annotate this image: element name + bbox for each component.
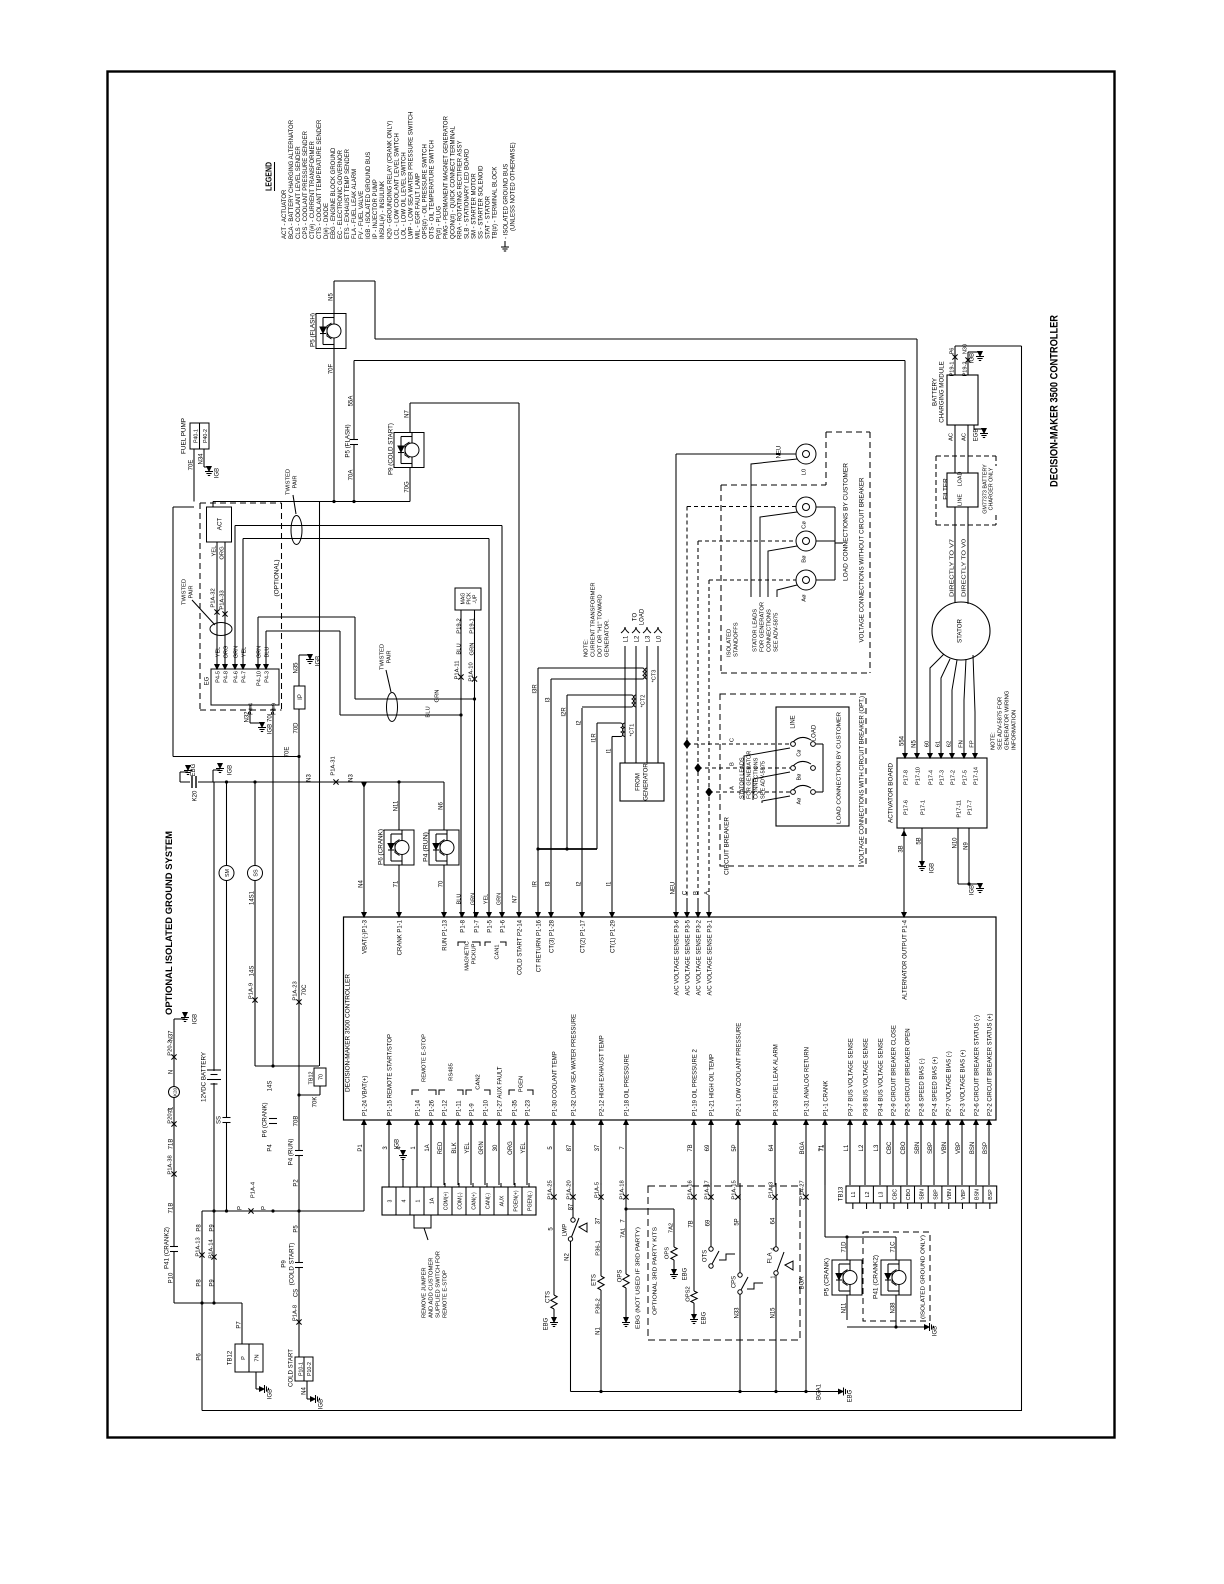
svg-text:ISOLATED: ISOLATED xyxy=(726,629,732,657)
svg-text:5B: 5B xyxy=(916,837,922,844)
svg-text:P3-8 BUS VOLTAGE SENSE: P3-8 BUS VOLTAGE SENSE xyxy=(863,1038,869,1116)
svg-text:P17-4: P17-4 xyxy=(928,770,934,785)
current transformer CT1 xyxy=(623,723,625,737)
svg-text:N15: N15 xyxy=(770,1307,776,1319)
wire I1 xyxy=(612,736,621,738)
svg-text:Cø: Cø xyxy=(801,521,807,529)
svg-text:CURRENT TRANSFORMER: CURRENT TRANSFORMER xyxy=(590,582,596,657)
svg-text:FV - FUEL VALVE: FV - FUEL VALVE xyxy=(359,191,365,239)
cold start box xyxy=(295,1357,313,1381)
svg-text:B: B xyxy=(729,762,735,766)
svg-text:70G: 70G xyxy=(404,481,410,493)
svg-text:37: 37 xyxy=(595,1217,601,1224)
svg-text:CBO: CBO xyxy=(906,1189,912,1200)
circuit breaker box xyxy=(776,707,849,826)
svg-text:N5: N5 xyxy=(911,740,917,748)
svg-text:SS - STARTER SOLENOID: SS - STARTER SOLENOID xyxy=(479,165,485,239)
svg-text:YEL: YEL xyxy=(521,1142,527,1154)
breaker pole A xyxy=(791,790,796,795)
svg-text:FILTER: FILTER xyxy=(942,478,949,500)
svg-text:(UNLESS NOTED OTHERWISE): (UNLESS NOTED OTHERWISE) xyxy=(510,142,516,231)
ground IGB (cold start) xyxy=(311,1397,316,1401)
wire ORG from ACT xyxy=(224,542,226,660)
splice P1A-27 xyxy=(803,1194,808,1199)
svg-text:(COLD START): (COLD START) xyxy=(288,1243,295,1286)
svg-text:3B: 3B xyxy=(898,845,904,852)
svg-text:SUPPLIED SWITCH FOR: SUPPLIED SWITCH FOR xyxy=(435,1251,441,1318)
wire P6 down to bottom rail xyxy=(201,1303,203,1411)
svg-text:P19-1: P19-1 xyxy=(469,618,475,633)
svg-text:CAN1: CAN1 xyxy=(494,945,500,960)
svg-text:CT(3) P1-28: CT(3) P1-28 xyxy=(549,919,555,953)
stator lead C# xyxy=(760,512,797,597)
wire P8 xyxy=(201,1211,203,1303)
svg-text:(ISOLATED GROUND ONLY): (ISOLATED GROUND ONLY) xyxy=(920,1235,926,1319)
svg-text:64: 64 xyxy=(770,1217,776,1224)
svg-text:BLU: BLU xyxy=(456,894,462,905)
svg-text:PAIR: PAIR xyxy=(188,585,194,598)
svg-text:P5 (FLASH): P5 (FLASH) xyxy=(344,424,351,457)
wire I2 xyxy=(582,706,632,708)
svg-text:STANDOFFS: STANDOFFS xyxy=(733,622,739,657)
wire 70C down to controller area xyxy=(298,757,300,1358)
svg-text:EGB: EGB xyxy=(973,429,979,442)
svg-text:IGB: IGB xyxy=(315,656,321,666)
svg-text:P1A-20: P1A-20 xyxy=(566,1180,572,1199)
wire 87 / LWP switch xyxy=(572,1183,574,1218)
svg-text:SBN: SBN xyxy=(915,1142,921,1154)
svg-text:RUN P1-13: RUN P1-13 xyxy=(442,919,448,950)
stator lead L0 xyxy=(751,459,797,597)
svg-text:N6: N6 xyxy=(438,802,444,810)
lamp P9 (COLD START) xyxy=(394,433,424,468)
ground EBG (OPS) xyxy=(624,1318,628,1323)
svg-text:P1-33 FUEL LEAK ALARM: P1-33 FUEL LEAK ALARM xyxy=(773,1044,779,1116)
svg-text:P5 (CRANK): P5 (CRANK) xyxy=(823,1258,830,1296)
svg-text:CAN(+): CAN(+) xyxy=(471,1192,477,1210)
svg-text:14S: 14S xyxy=(267,1081,273,1092)
svg-text:P3-4 BUS VOLTAGE SENSE: P3-4 BUS VOLTAGE SENSE xyxy=(878,1038,884,1116)
svg-text:FN: FN xyxy=(958,740,964,748)
svg-text:P1A-8: P1A-8 xyxy=(292,1305,298,1321)
svg-text:5P: 5P xyxy=(732,1144,738,1151)
contact SS on SM wire xyxy=(225,1118,228,1123)
controller box DECISION-MAKER 3500 xyxy=(344,917,997,1120)
svg-text:N37: N37 xyxy=(168,1030,174,1042)
svg-text:I3: I3 xyxy=(545,697,551,703)
wire 70D xyxy=(298,709,300,757)
svg-text:(OPTIONAL): (OPTIONAL) xyxy=(273,560,280,597)
svg-text:71C: 71C xyxy=(890,1241,896,1253)
svg-text:CPS: CPS xyxy=(731,1276,737,1288)
svg-text:7A1: 7A1 xyxy=(620,1228,626,1238)
svg-text:70D: 70D xyxy=(293,722,299,734)
svg-text:STATOR LEADS: STATOR LEADS xyxy=(752,609,758,652)
svg-text:IGB: IGB xyxy=(192,1014,198,1024)
dashed wire B to stator xyxy=(698,540,796,542)
svg-text:P1-10: P1-10 xyxy=(483,1099,489,1116)
svg-text:P1-35: P1-35 xyxy=(512,1099,518,1116)
svg-text:OPS(#) - OIL PRESSURE SWIT: OPS(#) - OIL PRESSURE SWITCH xyxy=(422,144,428,239)
wire NEU from L0 xyxy=(676,453,796,455)
splice P1A-38 xyxy=(171,1171,176,1176)
svg-text:P1A-4: P1A-4 xyxy=(250,1181,256,1198)
svg-text:ACT - ACTUATOR: ACT - ACTUATOR xyxy=(282,189,288,239)
svg-text:I1R: I1R xyxy=(591,733,597,743)
svg-text:*CT1: *CT1 xyxy=(629,724,635,737)
dashed box optional 3rd party kits xyxy=(648,1186,800,1340)
svg-text:P17-5: P17-5 xyxy=(962,770,968,785)
svg-text:LCL - LOW COOLANT LEVEL S: LCL - LOW COOLANT LEVEL SWITCH xyxy=(394,133,400,239)
svg-text:FLA - FUEL LEAK ALARM: FLA - FUEL LEAK ALARM xyxy=(352,169,358,239)
svg-text:L0: L0 xyxy=(656,635,662,642)
svg-text:P10-1: P10-1 xyxy=(298,1362,304,1376)
svg-text:GRN: GRN xyxy=(469,643,475,656)
svg-text:SS: SS xyxy=(253,869,259,877)
svg-text:PGEN: PGEN xyxy=(518,1076,524,1092)
svg-text:P9: P9 xyxy=(280,1260,287,1268)
ground EGG via capacitor K20 xyxy=(179,772,181,782)
svg-text:VBP: VBP xyxy=(956,1142,962,1154)
svg-text:P1A-33: P1A-33 xyxy=(219,590,225,609)
dashed wire B vertical xyxy=(697,541,699,898)
svg-text:VOLTAGE CONNECTIONS WITH CI: VOLTAGE CONNECTIONS WITH CIRCUIT BREAKER… xyxy=(859,696,865,864)
svg-text:LINE: LINE xyxy=(957,494,963,506)
svg-text:IGB: IGB xyxy=(318,1399,324,1409)
svg-text:14S: 14S xyxy=(249,966,255,977)
dashed wires to breaker line side xyxy=(687,743,790,745)
svg-text:P36-2: P36-2 xyxy=(595,1298,601,1313)
svg-text:ACTIVATOR BOARD: ACTIVATOR BOARD xyxy=(887,762,894,823)
svg-text:A: A xyxy=(729,786,735,790)
svg-text:BCA - BATTERY CHARGING ALT: BCA - BATTERY CHARGING ALTERNATOR xyxy=(289,119,295,239)
mag pickup pins xyxy=(460,610,462,715)
ground bus EBG (sensors) xyxy=(571,1391,839,1393)
svg-text:P6 (CRANK): P6 (CRANK) xyxy=(377,829,384,865)
svg-text:P8: P8 xyxy=(196,1279,202,1287)
svg-text:K20 - GROUNDING RELAY (CRA: K20 - GROUNDING RELAY (CRANK ONLY) xyxy=(387,121,393,239)
wire GRN to controller P1-7 xyxy=(474,699,476,917)
wire P4-4 N32 to ground xyxy=(249,705,251,723)
svg-text:71D: 71D xyxy=(841,1241,847,1253)
svg-text:71: 71 xyxy=(393,880,399,887)
stator terminal C# xyxy=(796,497,816,517)
svg-text:L1: L1 xyxy=(851,1192,857,1198)
battery charging module box xyxy=(947,375,978,425)
ground IGB on bus N3 xyxy=(212,770,214,782)
wire N7 from P9 lamp xyxy=(409,403,411,433)
dashed wire A vertical xyxy=(708,580,710,898)
svg-text:TB13: TB13 xyxy=(838,1186,844,1201)
svg-text:P1A-17: P1A-17 xyxy=(704,1180,710,1199)
wire BLU to controller P1-8 xyxy=(460,715,462,917)
wire 3B from activator to controller xyxy=(903,828,905,917)
svg-text:P17-3: P17-3 xyxy=(939,770,945,785)
svg-text:RED: RED xyxy=(438,1141,444,1154)
svg-text:FUEL PUMP: FUEL PUMP xyxy=(180,418,187,454)
svg-text:55A: 55A xyxy=(348,396,354,407)
svg-text:CHARGER ONLY: CHARGER ONLY xyxy=(988,467,994,510)
module AC pins xyxy=(954,425,956,473)
svg-text:N2: N2 xyxy=(564,1253,570,1261)
svg-text:70A: 70A xyxy=(348,470,354,481)
svg-text:L3: L3 xyxy=(879,1192,885,1198)
svg-text:L0: L0 xyxy=(801,469,807,475)
svg-text:69: 69 xyxy=(705,1219,711,1226)
svg-text:P: P xyxy=(237,1206,243,1210)
svg-text:L2: L2 xyxy=(859,1144,865,1151)
svg-text:P2-3 VOLTAGE BIAS (+): P2-3 VOLTAGE BIAS (+) xyxy=(960,1050,966,1116)
svg-text:INSUL(#) - INSULINK: INSUL(#) - INSULINK xyxy=(380,181,386,239)
ground IGB (module) xyxy=(978,352,982,357)
svg-text:SBP: SBP xyxy=(933,1189,939,1200)
svg-text:Bø: Bø xyxy=(801,555,807,563)
svg-text:CS: CS xyxy=(293,1289,299,1297)
svg-text:N9: N9 xyxy=(963,842,969,850)
svg-text:LOAD CONNECTION BY CUSTOMER: LOAD CONNECTION BY CUSTOMER xyxy=(836,712,842,824)
svg-text:P36-1: P36-1 xyxy=(595,1240,601,1255)
svg-text:YEL: YEL xyxy=(465,1142,471,1154)
wire I2 stub xyxy=(581,708,583,917)
svg-text:BLU: BLU xyxy=(456,643,462,654)
svg-text:EBG: EBG xyxy=(682,1267,688,1280)
svg-text:BLU: BLU xyxy=(425,706,431,717)
svg-text:DIRECTLY TO V7: DIRECTLY TO V7 xyxy=(949,539,955,597)
svg-text:7A2: 7A2 xyxy=(668,1223,674,1233)
svg-text:P1-8: P1-8 xyxy=(460,919,466,932)
svg-text:PICKUP: PICKUP xyxy=(471,943,477,964)
wire 70E horizontal xyxy=(172,507,174,757)
filter box xyxy=(947,473,978,507)
wire to TB12 and bottom bus xyxy=(174,1302,242,1304)
ground IGB (TB12) xyxy=(255,1372,257,1389)
svg-text:SLB - STATIONARY LED BOARD: SLB - STATIONARY LED BOARD xyxy=(465,148,471,239)
svg-text:IP - INJECTOR PUMP: IP - INJECTOR PUMP xyxy=(373,179,379,239)
page border frame xyxy=(108,72,1115,1438)
svg-text:OTS - OIL TEMPERATURE SWIT: OTS - OIL TEMPERATURE SWITCH xyxy=(429,140,435,239)
splice P20-2 xyxy=(171,1054,176,1059)
svg-text:P4-8: P4-8 xyxy=(223,671,229,683)
wire GRN magnetic pickup xyxy=(257,617,259,660)
actuator box ACT xyxy=(207,507,232,542)
svg-text:P1A-38: P1A-38 xyxy=(167,1155,173,1174)
svg-text:ETS - EXHAUST TEMP SENDER: ETS - EXHAUST TEMP SENDER xyxy=(345,148,351,239)
wire 70E from fuel pump xyxy=(193,449,195,502)
wire 70G xyxy=(409,468,411,502)
svg-text:P40-2: P40-2 xyxy=(203,429,209,443)
svg-text:64: 64 xyxy=(769,1144,775,1151)
svg-text:P10: P10 xyxy=(168,1272,174,1283)
svg-text:NEU: NEU xyxy=(776,446,782,459)
ground IGB (crank lamps) xyxy=(847,1326,924,1328)
svg-text:P1-11: P1-11 xyxy=(456,1100,462,1116)
svg-text:RS485: RS485 xyxy=(448,1063,454,1081)
svg-text:BGA: BGA xyxy=(799,1277,805,1290)
svg-text:ETS: ETS xyxy=(591,1274,597,1286)
svg-text:P1A-31: P1A-31 xyxy=(330,756,336,775)
svg-text:EBG: EBG xyxy=(191,763,197,776)
svg-text:I1: I1 xyxy=(606,748,612,754)
wire I2R xyxy=(567,694,632,696)
generator feed L3 xyxy=(646,646,648,763)
stator terminal L0 xyxy=(796,444,816,464)
starter motor SM circle xyxy=(226,782,228,1211)
svg-text:EBG: EBG xyxy=(847,1389,853,1402)
svg-text:P17-8: P17-8 xyxy=(903,770,909,785)
svg-text:P1-12: P1-12 xyxy=(442,1099,448,1116)
from generator box xyxy=(620,763,664,801)
svg-text:CBC: CBC xyxy=(887,1141,893,1154)
svg-text:LINE: LINE xyxy=(790,715,796,728)
svg-text:71B: 71B xyxy=(168,1203,174,1214)
load bracket (without breaker) xyxy=(816,506,835,508)
svg-text:IR: IR xyxy=(532,880,538,887)
svg-text:BSP: BSP xyxy=(988,1189,994,1200)
svg-text:VBAT(-)P1-3: VBAT(-)P1-3 xyxy=(362,919,368,954)
svg-text:P1-19 OIL PRESSURE 2: P1-19 OIL PRESSURE 2 xyxy=(692,1049,698,1116)
wire IR stub xyxy=(537,849,539,917)
svg-text:PGEN(-): PGEN(-) xyxy=(527,1191,533,1211)
svg-text:CRANK P1-1: CRANK P1-1 xyxy=(397,919,403,955)
svg-text:P17-2: P17-2 xyxy=(950,770,956,785)
terminal block TB12 tap 70K xyxy=(299,1094,320,1096)
contact P5 (FLASH) xyxy=(353,440,356,445)
svg-text:Aø: Aø xyxy=(796,797,802,805)
contact P9 (COLD START) xyxy=(298,1263,301,1268)
svg-text:P19-2: P19-2 xyxy=(962,362,968,377)
svg-text:P6: P6 xyxy=(949,348,955,355)
svg-text:P1-23: P1-23 xyxy=(525,1099,531,1116)
svg-text:K20: K20 xyxy=(172,1087,177,1096)
wire GRN CAN1 xyxy=(234,526,236,661)
wire 55A vertical xyxy=(353,361,355,502)
svg-text:CBO: CBO xyxy=(901,1141,907,1154)
svg-text:CT(2) P1-17: CT(2) P1-17 xyxy=(580,919,586,953)
dashed box (OPTIONAL) engine governor xyxy=(199,503,201,710)
splice P1A-23 xyxy=(296,999,301,1004)
svg-text:P1A-23: P1A-23 xyxy=(292,981,298,1000)
svg-text:FOR GENERATOR: FOR GENERATOR xyxy=(746,751,752,799)
svg-text:INFORMATION: INFORMATION xyxy=(1011,710,1017,750)
svg-text:P1A-13: P1A-13 xyxy=(195,1237,201,1256)
wire from bus 70A down to 14S jog xyxy=(319,502,321,1067)
svg-text:70L: 70L xyxy=(267,711,273,722)
svg-text:COLD START P2-14: COLD START P2-14 xyxy=(517,919,523,975)
svg-text:P1A-3: P1A-3 xyxy=(768,1182,774,1198)
stator lead A# xyxy=(777,585,797,597)
splice P1A-10 xyxy=(472,676,477,681)
svg-text:SBP: SBP xyxy=(928,1142,934,1154)
lamp P5 (CRANK) xyxy=(846,1237,848,1260)
svg-text:MAGNETIC: MAGNETIC xyxy=(464,941,470,971)
svg-text:P41 (CRANK2): P41 (CRANK2) xyxy=(163,1227,170,1269)
svg-text:P2-6 CIRCUIT BREAKER STATUS: P2-6 CIRCUIT BREAKER STATUS (-) xyxy=(974,1015,980,1116)
svg-text:1A: 1A xyxy=(429,1197,435,1204)
svg-text:DECISION-MAKER 3500 CONTROLL: DECISION-MAKER 3500 CONTROLLER xyxy=(1048,315,1060,487)
svg-text:P1A-9: P1A-9 xyxy=(248,983,254,999)
svg-text:SEE ADV-5875: SEE ADV-5875 xyxy=(760,761,766,799)
jumper tab below strip xyxy=(414,1215,431,1228)
svg-text:60: 60 xyxy=(924,741,930,747)
svg-text:FROM: FROM xyxy=(635,773,641,791)
svg-text:K20: K20 xyxy=(192,790,198,801)
svg-text:70F: 70F xyxy=(328,363,334,374)
svg-text:62: 62 xyxy=(946,741,952,747)
svg-text:N4: N4 xyxy=(301,1387,307,1395)
svg-text:AC: AC xyxy=(948,433,954,441)
svg-text:SM: SM xyxy=(225,868,231,877)
svg-text:IGB: IGB xyxy=(969,353,975,363)
wire N10 to ground xyxy=(957,828,959,884)
splice P20-1 xyxy=(171,1121,176,1126)
wire N35 to ground xyxy=(298,655,300,686)
svg-text:14S1: 14S1 xyxy=(249,890,255,905)
svg-text:GRN: GRN xyxy=(479,1141,485,1154)
svg-text:P4-10: P4-10 xyxy=(256,671,262,686)
svg-text:1: 1 xyxy=(415,1199,421,1202)
svg-text:87: 87 xyxy=(567,1144,573,1151)
svg-text:COLD START: COLD START xyxy=(288,1349,294,1387)
stator terminal B# xyxy=(796,531,816,551)
svg-text:N30: N30 xyxy=(962,344,968,354)
svg-text:TWISTED: TWISTED xyxy=(379,644,385,670)
wire 5 / CTS sender xyxy=(553,1183,555,1295)
svg-text:N7: N7 xyxy=(404,410,410,418)
engine governor box EG xyxy=(211,669,279,705)
svg-text:P2-5 CIRCUIT BREAKER OPEN: P2-5 CIRCUIT BREAKER OPEN xyxy=(905,1028,911,1116)
wire 7 / OPS sender xyxy=(625,1183,627,1274)
svg-text:ORG: ORG xyxy=(223,646,229,659)
svg-text:P1-15 REMOTE START/STOP: P1-15 REMOTE START/STOP xyxy=(387,1034,393,1116)
svg-text:CBC: CBC xyxy=(892,1189,898,1200)
svg-text:P9 (COLD START): P9 (COLD START) xyxy=(387,423,394,475)
stator terminal A# xyxy=(796,570,816,590)
svg-text:CPS - COOLANT PRESSURE SEN: CPS - COOLANT PRESSURE SENDER xyxy=(303,130,309,239)
dashed box isolated ground only xyxy=(863,1232,930,1321)
svg-text:N4: N4 xyxy=(358,880,364,888)
svg-text:P1-31 ANALOG RETURN: P1-31 ANALOG RETURN xyxy=(804,1047,810,1116)
splice P1A-8 xyxy=(296,1319,301,1324)
svg-text:L2: L2 xyxy=(865,1192,871,1198)
wire N4 to controller VBAT(-) xyxy=(363,782,365,917)
wire N5 horizontal run xyxy=(375,338,917,340)
svg-text:P1-14: P1-14 xyxy=(415,1099,421,1116)
splice P1A-9 xyxy=(252,997,257,1002)
svg-text:CAN2: CAN2 xyxy=(475,1074,481,1089)
twisted pair ellipse (mag pickup) xyxy=(387,693,398,722)
svg-text:STAT - STATOR: STAT - STATOR xyxy=(486,195,492,239)
svg-text:COM(+): COM(+) xyxy=(443,1191,449,1210)
lamp P6 (CRANK) xyxy=(397,780,400,783)
svg-text:P17-14: P17-14 xyxy=(973,767,979,785)
splice P1A-15 xyxy=(735,1194,740,1199)
svg-text:P9: P9 xyxy=(209,1279,215,1287)
svg-text:YEL: YEL xyxy=(215,647,221,658)
svg-text:Aø: Aø xyxy=(801,594,807,602)
svg-text:YEL: YEL xyxy=(241,647,247,658)
splice P1A-3 xyxy=(772,1194,777,1199)
svg-text:69: 69 xyxy=(705,1144,711,1151)
svg-text:TB12: TB12 xyxy=(308,1072,314,1085)
svg-text:FP: FP xyxy=(969,740,975,748)
capacitor K20 in bus xyxy=(190,780,198,785)
svg-text:I3: I3 xyxy=(545,881,551,887)
svg-text:SBN: SBN xyxy=(920,1189,926,1200)
svg-text:OPS: OPS xyxy=(664,1247,670,1259)
svg-text:I3R: I3R xyxy=(532,684,538,694)
svg-text:P2-7 VOLTAGE BIAS (-): P2-7 VOLTAGE BIAS (-) xyxy=(946,1051,952,1116)
svg-text:D(#) - DIODE: D(#) - DIODE xyxy=(324,203,330,239)
